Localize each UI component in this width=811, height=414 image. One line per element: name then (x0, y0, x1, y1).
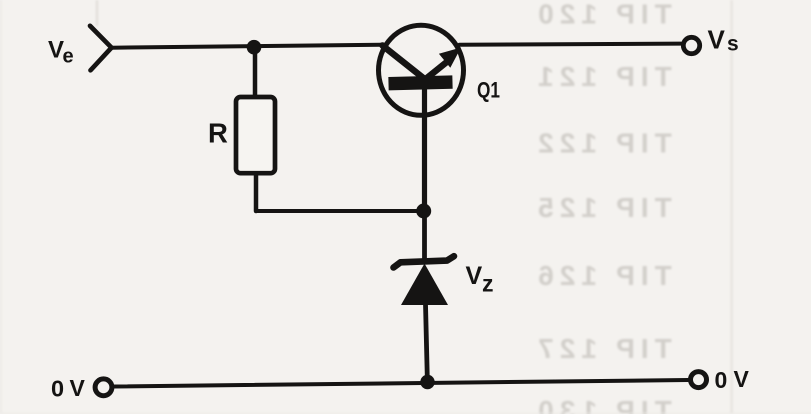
wire: junction down to resistor R top (253, 47, 258, 97)
svg-text:TIP 127: TIP 127 (532, 333, 672, 364)
svg-text:TIP 125: TIP 125 (532, 192, 672, 223)
node 0V right label (715, 366, 750, 393)
input terminal chevron Ve (90, 26, 112, 71)
wire: Ve to transistor collector (top rail left) (111, 45, 381, 48)
ground terminal 0V right (open circle) (691, 372, 707, 388)
wire: R bottom to base node (horizontal) (256, 209, 424, 213)
transistor Q1 collector stroke (383, 46, 425, 79)
zener diode Vz anode triangle (401, 264, 448, 306)
zener diode Vz cathode bar (z-bends) (394, 256, 455, 267)
transistor Q1 base bar (388, 75, 452, 90)
svg-text:s: s (727, 33, 739, 56)
svg-text:V: V (466, 262, 483, 290)
junction node: zener / bottom rail (420, 375, 434, 389)
svg-text:e: e (63, 46, 74, 68)
ground terminal 0V left (open circle) (95, 379, 112, 396)
svg-text:TIP 126: TIP 126 (532, 260, 672, 291)
svg-text:TIP 122: TIP 122 (532, 128, 672, 159)
junction node: top rail / R (247, 40, 262, 55)
node Vs label (708, 25, 739, 56)
terminal Vs (open circle) (683, 37, 699, 53)
node Ve label (48, 37, 74, 68)
svg-text:V: V (708, 25, 726, 55)
svg-text:Q1: Q1 (477, 77, 500, 102)
svg-text:0: 0 (715, 367, 728, 393)
wire: top rail right, emitter to Vs (460, 44, 681, 45)
wire: bottom rail 0V (114, 380, 689, 387)
wire: transistor base lead down to junction (422, 88, 427, 211)
svg-text:z: z (482, 271, 494, 297)
svg-text:TIP 120: TIP 120 (532, 0, 672, 30)
node 0V left label (51, 375, 86, 402)
svg-text:R: R (208, 118, 228, 149)
transistor Q1 emitter stroke with arrow (423, 61, 449, 82)
svg-text:V: V (734, 366, 750, 392)
junction node: base / zener (416, 204, 431, 219)
svg-text:TIP 121: TIP 121 (532, 61, 672, 92)
wire: resistor R bottom lead (254, 175, 259, 211)
svg-text:V: V (70, 375, 86, 401)
resistor R body (236, 97, 275, 173)
wire: base junction down to zener cathode (422, 211, 427, 259)
svg-text:0: 0 (51, 376, 64, 402)
transistor Q1 circle (379, 25, 464, 115)
label Vz (466, 262, 494, 297)
wire: zener anode down to bottom rail (426, 304, 428, 378)
svg-text:TIP 130: TIP 130 (532, 395, 672, 414)
